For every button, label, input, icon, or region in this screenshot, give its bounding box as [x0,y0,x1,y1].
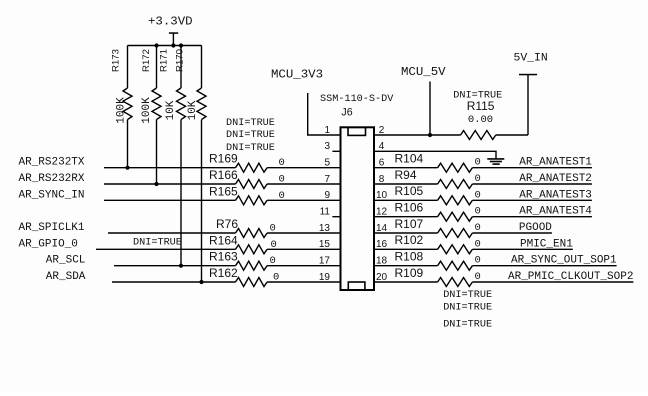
resistor R105 0 ohm [395,184,481,205]
svg-text:AR_ANATEST1: AR_ANATEST1 [519,157,592,169]
resistor R108 0 ohm [395,250,481,271]
power symbol 5V_IN [514,53,548,136]
svg-text:5V_IN: 5V_IN [514,53,548,65]
svg-text:2: 2 [379,125,385,136]
wire AR_SDA to R162 [112,281,236,283]
svg-text:MCU_3V3: MCU_3V3 [271,68,323,82]
svg-text:0: 0 [475,189,481,201]
svg-text:9: 9 [324,190,330,201]
svg-text:R173: R173 [110,49,121,72]
wire AR_SCL to R163 [114,265,236,267]
svg-text:1: 1 [324,125,330,136]
wire R170 to row [201,120,203,282]
svg-text:0: 0 [475,238,481,250]
pin 3 stub [332,150,340,152]
wire R107 to PGOOD [472,232,552,234]
svg-text:18: 18 [376,256,388,267]
resistor R172 100K pull-up [141,46,161,124]
svg-text:R107: R107 [395,217,424,231]
svg-text:AR_SPICLK1: AR_SPICLK1 [19,222,85,234]
svg-text:AR_SYNC_IN: AR_SYNC_IN [19,189,85,201]
svg-text:0: 0 [475,206,481,218]
svg-text:0: 0 [475,157,481,169]
svg-text:PGOOD: PGOOD [519,222,552,234]
wire R102 to PMIC_EN1 [472,248,572,250]
wire AR_SYNC_IN to R165 [104,199,236,201]
svg-text:0: 0 [475,271,481,283]
svg-text:10K: 10K [187,100,199,120]
wire R169 to pin 5 [267,167,340,169]
wire R104 to AR_ANATEST1 [472,167,592,169]
svg-text:DNI=TRUE: DNI=TRUE [226,118,275,129]
pin 11 stub [332,216,340,218]
svg-text:R94: R94 [395,168,417,182]
resistor R109 0 ohm [395,266,481,287]
resistor R163 0 ohm [209,250,276,271]
svg-text:AR_GPIO_0: AR_GPIO_0 [19,238,78,250]
resistor R162 0 ohm [209,266,279,287]
wire pin 8 to R94 [374,183,438,185]
svg-text:5: 5 [324,158,330,169]
junction R171 on row [179,264,183,268]
svg-text:10: 10 [376,190,388,201]
svg-text:7: 7 [324,174,330,185]
svg-text:R104: R104 [395,152,424,166]
svg-text:R108: R108 [395,250,424,264]
svg-text:AR_RS232RX: AR_RS232RX [19,173,85,185]
svg-text:DNI=TRUE: DNI=TRUE [226,143,275,154]
wire pin 20 to R109 [374,281,438,283]
junction on bus at +3.3VD stem [171,43,175,47]
svg-text:19: 19 [319,272,331,283]
label DNI=TRUE stack for R169 R166 R165 [226,118,275,154]
resistor R164 0 ohm [209,233,277,254]
svg-text:0: 0 [475,173,481,185]
resistor R106 0 ohm [395,201,481,222]
svg-text:AR_SCL: AR_SCL [46,255,86,267]
svg-text:R76: R76 [216,217,238,231]
junction R172 on row [154,182,158,186]
wire R164 to pin 15 [267,248,340,250]
wire pin 4 to ground [374,151,496,158]
svg-text:3: 3 [324,141,330,152]
wire R109 to AR_PMIC_CLKOUT_SOP2 [472,281,633,283]
svg-text:8: 8 [379,174,385,185]
wire pin 18 to R108 [374,265,438,267]
svg-text:R102: R102 [395,233,424,247]
wire +3.3VD bus [128,45,202,47]
svg-text:R164: R164 [209,233,238,247]
wire pin 2 to R115 [374,134,461,136]
wire AR_SPICLK1 to R76 [108,232,236,234]
svg-text:17: 17 [319,256,331,267]
wire R162 to pin 19 [267,281,340,283]
resistor R115 0.00 DNI=TRUE [453,91,502,140]
svg-text:100K: 100K [141,97,153,124]
wire pin 12 to R106 [374,216,438,218]
wire R115 to 5V_IN [496,134,528,136]
svg-text:R163: R163 [209,250,238,264]
svg-text:0.00: 0.00 [468,114,493,126]
wire pin 16 to R102 [374,248,438,250]
wire R172 to row [156,120,158,184]
svg-text:14: 14 [376,223,388,234]
svg-text:AR_ANATEST4: AR_ANATEST4 [519,206,592,218]
wire R106 to AR_ANATEST4 [472,216,592,218]
svg-text:R162: R162 [209,266,238,280]
resistor R166 0 ohm [209,168,285,189]
svg-text:12: 12 [376,207,388,218]
svg-text:MCU_5V: MCU_5V [401,65,446,79]
svg-text:DNI=TRUE: DNI=TRUE [443,320,492,331]
resistor R76 0 ohm [216,217,276,238]
svg-text:20: 20 [376,272,388,283]
resistor R102 0 ohm [395,233,481,254]
junction R173 on row [125,166,129,170]
wire AR_GPIO_0 to R164 [96,248,236,250]
wire pin 6 to R104 [374,167,438,169]
svg-text:15: 15 [319,239,331,250]
svg-text:16: 16 [376,239,388,250]
svg-text:DNI=TRUE: DNI=TRUE [133,238,182,249]
wire AR_RS232TX to R169 [104,167,236,169]
junction on bus at R172 [154,43,158,47]
svg-text:DNI=TRUE: DNI=TRUE [443,290,492,301]
resistor R170 10K pull-up [175,46,206,121]
svg-text:R105: R105 [395,184,424,198]
resistor R173 100K pull-up [110,46,132,124]
svg-text:13: 13 [319,223,331,234]
wire R94 to AR_ANATEST2 [472,183,592,185]
svg-text:R171: R171 [159,49,170,72]
resistor R107 0 ohm [395,217,481,238]
power symbol +3.3VD [148,15,193,46]
svg-text:4: 4 [379,141,385,152]
wire R76 to pin 13 [267,232,340,234]
svg-text:SSM-110-S-DV: SSM-110-S-DV [320,94,394,105]
resistor R104 0 ohm [395,152,481,173]
wire AR_RS232RX to R166 [104,183,236,185]
wire pin 14 to R107 [374,232,438,234]
junction on bus at R171 [179,43,183,47]
svg-text:11: 11 [320,207,331,218]
svg-text:AR_ANATEST2: AR_ANATEST2 [519,173,592,185]
svg-text:10K: 10K [165,100,177,120]
svg-text:AR_PMIC_CLKOUT_SOP2: AR_PMIC_CLKOUT_SOP2 [508,271,633,283]
wire R108 to AR_SYNC_OUT_SOP1 [472,265,616,267]
ground [487,159,504,164]
svg-text:R170: R170 [175,49,186,72]
junction R170 on row [199,280,203,284]
svg-text:R166: R166 [209,168,238,182]
wire pin 10 to R105 [374,199,438,201]
wire R165 to pin 9 [267,199,340,201]
junction MCU_5V on pin2 net [428,133,432,137]
svg-text:PMIC_EN1: PMIC_EN1 [520,238,573,250]
resistor R165 0 ohm [209,184,285,205]
wire R173 to row [127,120,129,168]
svg-text:R115: R115 [467,99,495,113]
svg-text:AR_SYNC_OUT_SOP1: AR_SYNC_OUT_SOP1 [511,255,617,267]
svg-text:100K: 100K [116,97,128,124]
svg-text:R109: R109 [395,266,424,280]
resistor R94 0 ohm [395,168,481,189]
svg-text:AR_RS232TX: AR_RS232TX [19,157,85,169]
resistor R169 0 ohm [209,152,285,173]
wire MCU_5V stem [429,82,431,136]
svg-text:+3.3VD: +3.3VD [148,15,193,29]
svg-text:R106: R106 [395,201,424,215]
svg-text:AR_ANATEST3: AR_ANATEST3 [519,189,592,201]
label DNI=TRUE stack for R109 R108 R102 [443,290,492,331]
wire R166 to pin 7 [267,183,340,185]
wire R105 to AR_ANATEST3 [472,199,592,201]
svg-text:0: 0 [475,222,481,234]
svg-text:DNI=TRUE: DNI=TRUE [226,130,275,141]
svg-text:0: 0 [475,255,481,267]
wire R163 to pin 17 [267,265,340,267]
svg-text:R165: R165 [209,184,238,198]
wire MCU_3V3 to pin 1 [308,93,341,135]
svg-text:J6: J6 [341,107,352,119]
resistor R171 10K pull-up [159,46,186,121]
wire R171 to row [180,120,182,266]
connector J6 SSM-110-S-DV body [341,127,375,290]
svg-text:AR_SDA: AR_SDA [46,271,86,283]
svg-text:R172: R172 [141,49,152,72]
svg-text:DNI=TRUE: DNI=TRUE [443,302,492,313]
svg-text:6: 6 [379,158,385,169]
